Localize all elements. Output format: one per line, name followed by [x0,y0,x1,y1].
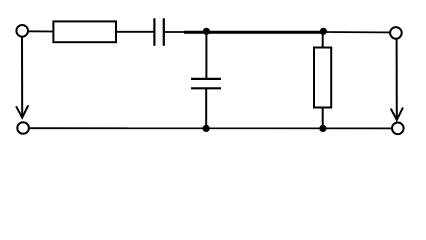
wire: bottom rail [30,127,392,129]
capacitor C1 (series) left plate [153,18,155,46]
input voltage arrow (left, open V head) [16,105,28,117]
output voltage arrow (right, shaft) [396,39,398,120]
output terminal top-right (open circle) [390,27,402,39]
capacitor C2 (shunt) top plate [191,78,221,80]
wire: R1 to C1 [117,31,153,33]
wire: top-left terminal to R1 [28,30,53,32]
node D (junction dot, bottom of R2) [319,125,326,132]
input terminal bottom-left (open circle) [17,122,29,134]
wire: C2 down to bottom rail [205,89,207,128]
wire: node B to top-right terminal [324,31,391,33]
input terminal top-left (open circle) [16,25,28,37]
output terminal bottom-right (open circle) [392,123,404,135]
resistor R1 (series, horizontal box) [53,21,116,42]
node C (junction dot, bottom of C2) [203,125,210,132]
input voltage arrow (left, shaft) [21,37,23,118]
capacitor C1 (series) right plate [163,18,165,46]
resistor R2 (shunt, vertical box) [314,48,331,108]
wire: node A down to C2 [205,31,207,78]
wire: R2 down to bottom rail [322,108,324,129]
wire: node B down to R2 [322,31,324,47]
capacitor C2 (shunt) bottom plate [191,87,221,89]
wire: bold net segment (node A to node B) [184,31,324,34]
node B (junction dot, top of R2) [320,28,327,35]
output voltage arrow (right, open V head) [391,108,403,120]
wire: C1 to bold net [165,31,186,33]
node A (junction dot, top of C2) [203,28,210,35]
